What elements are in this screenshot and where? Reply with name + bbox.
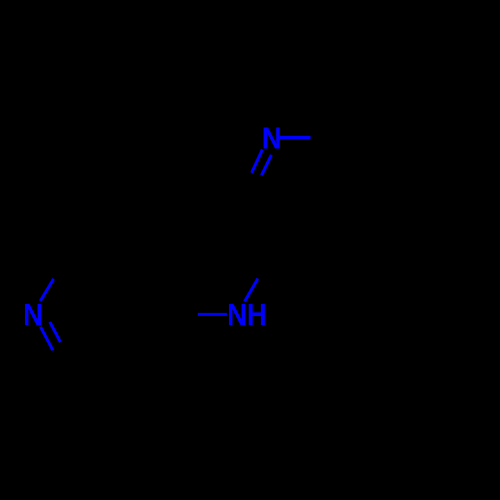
bond from pyridine N up-right (blue half) [40,279,53,301]
svg-text:N: N [262,121,282,156]
double bond pyridine N=C (outer line, blue half) [41,327,53,351]
bond from CH2 to NH (horizontal, blue half) [198,313,227,316]
bond from quinoline N to C2 (horizontal, blue half) [280,136,311,139]
double bond N=C3 (top, inner line, blue half) [262,155,272,175]
svg-text:NH: NH [227,298,267,333]
double bond N=C3 (top, outer line, blue half) [252,150,263,173]
double bond pyridine N=C (inner line, blue half) [50,322,61,342]
bond from NH up-right to quinoline C4 (blue half) [245,279,258,302]
